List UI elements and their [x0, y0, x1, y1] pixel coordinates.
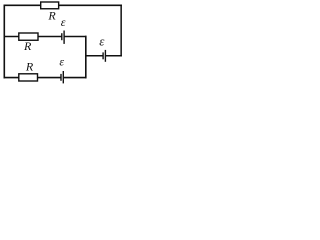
battery cell E1: [62, 31, 64, 44]
resistor R1: [41, 2, 59, 9]
svg-text:ε: ε: [59, 55, 64, 69]
battery cell E2: [61, 71, 63, 83]
svg-text:R: R: [25, 60, 34, 74]
wire bottom branch right: [63, 77, 86, 79]
svg-text:R: R: [47, 8, 56, 22]
wire mid-right branch right: [105, 55, 122, 57]
resistor R3: [19, 74, 38, 81]
label E1 value epsilon: [61, 15, 66, 29]
wire left border: [3, 5, 5, 79]
svg-text:R: R: [23, 39, 32, 53]
label R2 value R: [23, 39, 32, 53]
wire top border: [4, 4, 122, 6]
label E2 value epsilon: [59, 55, 64, 69]
resistor R2: [19, 33, 38, 40]
label E3 value epsilon: [99, 34, 105, 49]
wire bottom branch left: [4, 77, 62, 79]
wire middle branch left: [4, 36, 62, 38]
wire middle branch right: [64, 36, 86, 38]
label R3 value R: [25, 60, 34, 74]
svg-text:ε: ε: [99, 34, 105, 49]
svg-text:ε: ε: [61, 15, 66, 29]
label R1 value R: [47, 8, 56, 22]
wire mid-right branch left: [85, 55, 103, 57]
wire middle vertical: [85, 36, 87, 79]
wire right border: [120, 5, 122, 57]
battery cell E3: [103, 50, 105, 62]
